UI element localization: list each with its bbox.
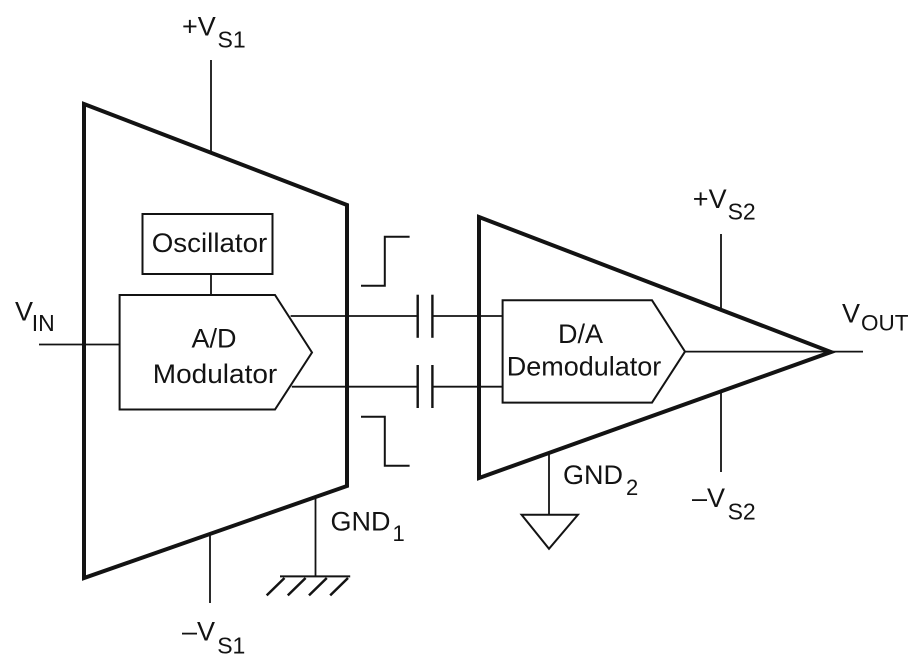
svg-text:S1: S1 bbox=[217, 633, 245, 659]
svg-text:–V: –V bbox=[182, 616, 215, 646]
wire bottom signal A/D to capacitor C2 bbox=[292, 386, 417, 388]
svg-text:S2: S2 bbox=[728, 499, 756, 525]
svg-text:+V: +V bbox=[693, 184, 727, 214]
svg-text:V: V bbox=[15, 296, 33, 326]
wire top signal A/D to capacitor C1 bbox=[291, 315, 417, 317]
node +VS2 label bbox=[693, 184, 756, 225]
wire oscillator to A/D modulator bbox=[210, 274, 212, 295]
wire capacitor C2 to D/A bbox=[434, 386, 503, 388]
node -VS1 label bbox=[182, 616, 245, 658]
ground symbol GND2 (open triangle) bbox=[522, 515, 578, 549]
svg-text:–V: –V bbox=[692, 483, 725, 513]
svg-text:GND: GND bbox=[331, 506, 391, 536]
capacitor C2 (isolation barrier, bottom) bbox=[418, 365, 433, 408]
wire VOUT output bbox=[685, 351, 863, 353]
ground symbol GND1 (earth/hatched) bbox=[267, 576, 351, 595]
wire capacitor C1 to D/A bbox=[434, 315, 503, 317]
wire +VS2 supply bbox=[720, 234, 722, 309]
node GND2 label bbox=[563, 460, 638, 500]
node VIN label bbox=[15, 296, 55, 335]
wire VIN input bbox=[39, 344, 120, 346]
svg-text:V: V bbox=[842, 298, 860, 328]
node VOUT label bbox=[842, 298, 909, 335]
svg-text:S2: S2 bbox=[728, 199, 756, 225]
D/A demodulator U3 bbox=[503, 300, 685, 402]
svg-text:GND: GND bbox=[563, 460, 623, 490]
svg-text:Oscillator: Oscillator bbox=[152, 228, 268, 258]
svg-text:D/A: D/A bbox=[558, 319, 603, 349]
svg-text:IN: IN bbox=[32, 310, 55, 336]
oscillator U1 bbox=[143, 214, 273, 274]
amplifier A2 output-stage body (triangle) bbox=[479, 217, 831, 478]
amplifier A1 input-stage body (trapezoid) bbox=[84, 104, 347, 578]
svg-text:S1: S1 bbox=[218, 27, 246, 53]
waveform symbol, rising edge (top) bbox=[361, 237, 410, 286]
svg-text:Modulator: Modulator bbox=[153, 359, 278, 389]
wire GND2 bbox=[548, 452, 550, 514]
wire GND1 bbox=[315, 497, 317, 577]
A/D modulator U2 bbox=[120, 295, 312, 410]
svg-text:+V: +V bbox=[182, 11, 216, 41]
node +VS1 label bbox=[182, 11, 246, 52]
svg-text:Demodulator: Demodulator bbox=[507, 352, 662, 382]
svg-text:OUT: OUT bbox=[861, 311, 909, 336]
wire +VS1 supply bbox=[210, 60, 212, 154]
svg-text:2: 2 bbox=[626, 475, 638, 500]
svg-text:1: 1 bbox=[393, 521, 405, 546]
waveform symbol, falling edge (bottom) bbox=[361, 417, 410, 466]
capacitor C1 (isolation barrier, top) bbox=[418, 295, 433, 338]
svg-text:A/D: A/D bbox=[191, 324, 236, 354]
node -VS2 label bbox=[692, 483, 756, 525]
node GND1 label bbox=[331, 506, 405, 546]
wire -VS1 supply bbox=[209, 534, 211, 603]
wire -VS2 supply bbox=[720, 391, 722, 472]
